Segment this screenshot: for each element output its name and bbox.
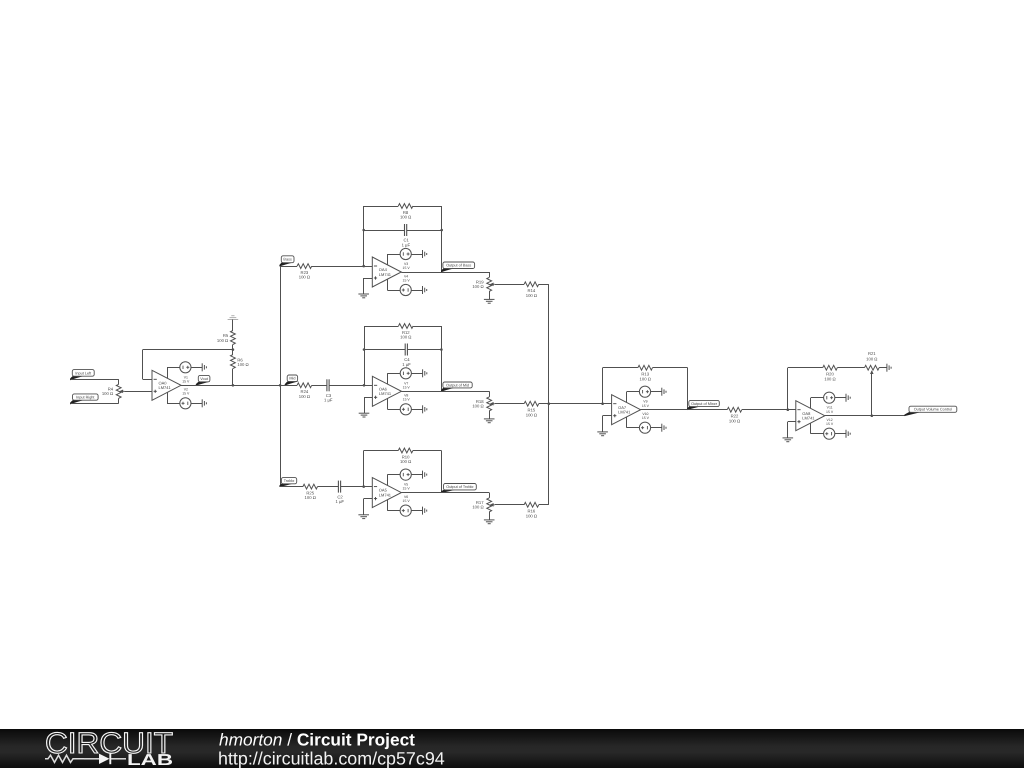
net flag Output of Mixer [687, 400, 719, 410]
wire [837, 367, 864, 369]
wire [411, 510, 422, 512]
wire [167, 393, 169, 404]
wire [441, 326, 443, 391]
svg-text:15 V: 15 V [403, 499, 411, 503]
resistor R23 [297, 264, 312, 280]
wire [441, 451, 443, 493]
svg-text:hmorton / Circuit Project: hmorton / Circuit Project [219, 730, 415, 750]
svg-text:15 V: 15 V [403, 278, 411, 282]
wire [364, 326, 366, 385]
svg-text:100 Ω: 100 Ω [526, 293, 537, 298]
wire [787, 422, 789, 438]
svg-text:15 V: 15 V [826, 410, 834, 414]
wire [787, 368, 789, 410]
wire [489, 291, 491, 299]
wire [280, 385, 297, 387]
ground [423, 286, 427, 294]
wire [387, 399, 389, 410]
ground [484, 419, 495, 423]
wire [280, 486, 303, 488]
wire [879, 367, 887, 369]
wire [142, 350, 144, 380]
svg-text:15 V: 15 V [403, 487, 411, 491]
voltage source V11 [824, 392, 835, 403]
ground [423, 250, 427, 258]
wire [811, 433, 824, 435]
capacitor C2 [335, 481, 344, 504]
ground [484, 299, 495, 303]
svg-text:15 V: 15 V [642, 416, 650, 420]
wire [401, 272, 489, 274]
wire [167, 367, 169, 378]
resistor R15 [524, 401, 539, 417]
node [363, 348, 366, 351]
wire [363, 451, 365, 487]
wire [489, 493, 491, 498]
svg-text:100 Ω: 100 Ω [640, 376, 651, 381]
wire [387, 500, 389, 511]
wire [742, 409, 796, 411]
wire [413, 326, 441, 328]
op-amp OA0 [152, 370, 181, 400]
wire [489, 411, 491, 419]
svg-text:Output of Mid: Output of Mid [446, 383, 469, 387]
wire [810, 423, 812, 434]
wire [280, 266, 297, 268]
label V4 15 V [403, 274, 411, 282]
wire [401, 391, 489, 393]
node [871, 414, 874, 417]
wire (wiper) [871, 374, 873, 416]
ground [423, 369, 427, 377]
ground [662, 388, 666, 396]
wire [602, 416, 604, 432]
svg-text:100 Ω: 100 Ω [217, 338, 228, 343]
label V9 15 V [642, 400, 650, 408]
wire [626, 392, 628, 403]
svg-text:100 Ω: 100 Ω [299, 394, 310, 399]
svg-text:LM741: LM741 [379, 272, 392, 277]
wire [387, 290, 400, 292]
wire [835, 433, 846, 435]
wire [387, 475, 389, 486]
wire [364, 326, 399, 328]
ground [202, 363, 206, 371]
wire [387, 279, 389, 290]
footer bar [0, 729, 1024, 768]
ground [423, 405, 427, 413]
svg-text:LM741: LM741 [379, 391, 392, 396]
wire (main bus) [181, 385, 280, 387]
wire [364, 349, 405, 351]
wire [387, 474, 400, 476]
svg-text:100 Ω: 100 Ω [305, 495, 316, 500]
wire [364, 450, 399, 452]
wire [118, 379, 120, 384]
wire [167, 403, 180, 405]
voltage source V12 [824, 428, 835, 439]
label V10 15 V [642, 412, 650, 420]
wire (summing bus) [548, 284, 550, 505]
wire [627, 391, 640, 393]
wire [363, 278, 365, 294]
svg-text:Bass: Bass [283, 258, 292, 262]
potentiometer R17 [472, 498, 494, 512]
label V7 15 V [403, 381, 411, 389]
resistor R24 [297, 383, 312, 399]
wire [651, 427, 662, 429]
wire [364, 206, 399, 208]
node [362, 485, 365, 488]
svg-text:100 Ω: 100 Ω [472, 505, 483, 510]
wire [603, 367, 638, 369]
voltage source V1 [180, 362, 191, 373]
wire [124, 391, 152, 393]
resistor R22 [727, 407, 742, 423]
potentiometer R4 [102, 384, 124, 398]
wire [407, 349, 441, 351]
node [548, 402, 551, 405]
svg-text:100 Ω: 100 Ω [824, 376, 835, 381]
svg-text:100 Ω: 100 Ω [102, 391, 113, 396]
resistor R13 [638, 365, 653, 381]
wire [495, 403, 524, 405]
svg-text:1 μF: 1 μF [324, 398, 333, 403]
label V2 15 V [182, 388, 190, 396]
wire [495, 504, 524, 506]
wire (band branch) [280, 266, 282, 487]
wire [539, 284, 549, 286]
node [601, 402, 604, 405]
svg-text:15 V: 15 V [403, 385, 411, 389]
capacitor C4 [402, 344, 411, 367]
wire [489, 391, 491, 397]
ground [358, 294, 369, 298]
wire [364, 230, 405, 232]
svg-text:LM741: LM741 [159, 385, 172, 390]
wire [364, 278, 373, 280]
svg-text:100 Ω: 100 Ω [472, 284, 483, 289]
wire [232, 320, 234, 331]
svg-text:100 Ω: 100 Ω [472, 404, 483, 409]
node [440, 229, 443, 232]
wire [441, 206, 443, 272]
net flag Treble [279, 478, 296, 487]
wire [407, 230, 442, 232]
wire [603, 415, 612, 417]
voltage source V4 [400, 284, 411, 295]
wire [329, 385, 372, 387]
wire [413, 450, 442, 452]
op-amp OA8 [796, 401, 825, 431]
resistor R20 [823, 365, 838, 381]
net flag Output of Mid [441, 382, 472, 392]
voltage source V10 [639, 422, 650, 433]
capacitor C1 [402, 224, 411, 247]
node [787, 408, 790, 411]
op-amp OA6 [372, 376, 401, 406]
wire [413, 206, 442, 208]
node [362, 265, 365, 268]
node [232, 384, 235, 387]
label V11 15 V [826, 406, 834, 414]
wire [788, 367, 823, 369]
ground [846, 394, 850, 402]
net flag Output of Treble [441, 484, 476, 494]
wire [312, 266, 373, 268]
wire [167, 367, 180, 369]
wire [626, 417, 628, 428]
svg-text:Input Right: Input Right [76, 395, 95, 399]
label V3 15 V [403, 262, 411, 270]
wire [364, 498, 373, 500]
potentiometer R18 [472, 397, 494, 411]
ground [359, 413, 370, 417]
op-amp OA7 [612, 395, 641, 425]
voltage source V8 [400, 404, 411, 415]
resistor R10 [398, 448, 413, 464]
ground [597, 432, 608, 436]
svg-text:LM741: LM741 [802, 416, 815, 421]
svg-text:100 Ω: 100 Ω [237, 362, 248, 367]
wire [495, 284, 524, 286]
voltage source V2 [180, 398, 191, 409]
svg-text:Input Left: Input Left [75, 371, 92, 375]
wire [232, 369, 234, 386]
wire [118, 398, 120, 403]
svg-text:1 μF: 1 μF [402, 242, 411, 247]
net flag Output of Bass [441, 262, 475, 272]
wire [143, 349, 233, 351]
wire [318, 486, 339, 488]
wire [364, 397, 372, 399]
label V6 15 V [403, 495, 411, 503]
svg-text:http://circuitlab.com/cp57c94: http://circuitlab.com/cp57c94 [218, 749, 445, 768]
wire [627, 427, 640, 429]
wire [312, 385, 327, 387]
svg-text:15 V: 15 V [182, 379, 190, 383]
wire [411, 290, 422, 292]
wire [191, 367, 202, 369]
svg-text:100 Ω: 100 Ω [400, 335, 411, 340]
node [362, 229, 365, 232]
svg-text:100 Ω: 100 Ω [729, 418, 740, 423]
svg-text:15 V: 15 V [826, 422, 834, 426]
wire [825, 415, 905, 417]
wire [603, 403, 612, 405]
ground [202, 399, 206, 407]
potentiometer R21 [865, 351, 880, 374]
wire [411, 409, 422, 411]
wire [653, 367, 688, 369]
wire [364, 397, 366, 413]
wire [71, 403, 119, 405]
wire [602, 368, 604, 404]
wire [387, 373, 389, 384]
label V8 15 V [403, 394, 411, 402]
wire [539, 504, 549, 506]
wire [387, 373, 400, 375]
label V5 15 V [403, 483, 411, 491]
wire [411, 474, 422, 476]
wire [232, 345, 234, 350]
ground [662, 424, 666, 432]
wire [811, 397, 824, 399]
wire [341, 486, 373, 488]
wire [641, 409, 728, 411]
wire [810, 398, 812, 409]
ground [423, 507, 427, 515]
op-amp OA5 [372, 478, 401, 508]
svg-text:100 Ω: 100 Ω [299, 275, 310, 280]
wire [489, 272, 491, 277]
svg-text:LAB: LAB [127, 752, 173, 768]
wire [363, 206, 365, 266]
wire [651, 391, 662, 393]
ground [358, 515, 369, 519]
svg-text:Output Volume Control: Output Volume Control [914, 408, 953, 412]
node [440, 348, 443, 351]
svg-text:100 Ω: 100 Ω [400, 215, 411, 220]
wire (to mixer) [539, 403, 603, 405]
net flag Vout [196, 375, 210, 385]
voltage source V7 [400, 368, 411, 379]
voltage source V5 [400, 469, 411, 480]
resistor R16 [524, 502, 539, 518]
wire [191, 403, 202, 405]
label V1 15 V [182, 375, 190, 383]
node [232, 348, 235, 351]
resistor R8 [398, 204, 413, 220]
net flag Output Volume Control [904, 406, 956, 416]
wire [401, 492, 489, 494]
net flag Input Right [70, 394, 98, 405]
voltage source V9 [639, 386, 650, 397]
svg-text:15 V: 15 V [182, 392, 190, 396]
svg-text:1 μF: 1 μF [335, 499, 344, 504]
svg-text:Vout: Vout [200, 377, 209, 381]
wire [411, 373, 422, 375]
ground [423, 471, 427, 479]
ground [783, 438, 794, 442]
svg-text:Treble: Treble [284, 479, 295, 483]
net flag Bass [279, 256, 294, 267]
label V12 15 V [826, 418, 834, 426]
op-amp OA4 [372, 257, 401, 287]
svg-text:Mid: Mid [289, 377, 295, 381]
resistor R25 [303, 484, 318, 500]
wire [387, 409, 400, 411]
wire [232, 350, 234, 355]
wire [411, 254, 422, 256]
voltage source V6 [400, 505, 411, 516]
resistor R14 [524, 282, 539, 298]
resistor R12 [399, 324, 414, 340]
voltage source V3 [400, 248, 411, 259]
wire [835, 397, 846, 399]
svg-text:100 Ω: 100 Ω [400, 459, 411, 464]
net flag Mid [285, 375, 299, 386]
svg-text:100 Ω: 100 Ω [526, 513, 537, 518]
power rail symbol [228, 316, 239, 320]
logo resistor-diode glyph [45, 753, 126, 764]
svg-text:Output of Treble: Output of Treble [446, 485, 473, 489]
svg-text:LM741: LM741 [618, 410, 631, 415]
svg-text:1 μF: 1 μF [402, 362, 411, 367]
svg-text:Output of Mixer: Output of Mixer [691, 402, 718, 406]
wire [788, 421, 796, 423]
resistor R6 [231, 355, 249, 369]
svg-text:LM741: LM741 [379, 493, 392, 498]
svg-text:100 Ω: 100 Ω [526, 412, 537, 417]
capacitor C3 [324, 379, 333, 402]
node [279, 384, 282, 387]
svg-text:100 Ω: 100 Ω [866, 356, 877, 361]
wire [387, 510, 400, 512]
svg-text:15 V: 15 V [403, 266, 411, 270]
net flag Input Left [70, 370, 94, 381]
wire [489, 512, 491, 520]
svg-text:15 V: 15 V [642, 404, 650, 408]
wire [143, 379, 152, 381]
ground [887, 364, 891, 372]
ground [484, 520, 495, 524]
wire [687, 368, 689, 410]
resistor R5 [217, 331, 235, 345]
wire [363, 499, 365, 515]
wire [71, 379, 119, 381]
svg-text:Output of Bass: Output of Bass [446, 264, 471, 268]
svg-text:15 V: 15 V [403, 398, 411, 402]
node [363, 384, 366, 387]
potentiometer R19 [472, 277, 494, 291]
ground [846, 430, 850, 438]
wire [387, 254, 389, 265]
wire [387, 254, 400, 256]
